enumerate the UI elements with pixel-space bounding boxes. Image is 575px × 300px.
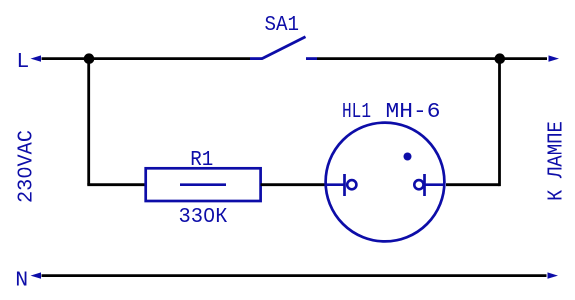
zero-dot mask for 230VAC [21,169,27,175]
lamp right electrode tip circle [414,180,423,189]
lamp right electrode bar [423,174,426,196]
wire right vertical rise [498,59,501,187]
lamp left electrode tip circle [347,180,356,189]
resistor R1 power-rating dash [180,183,226,186]
switch SA1 right contact stub [306,57,317,60]
junction left on L line [84,53,95,64]
wire resistor to lamp [261,183,327,186]
arrow left on N line [31,272,42,278]
zero-dot mask for 330K [207,213,212,218]
switch SA1 blade [262,37,306,59]
wire L line right segment [317,57,547,60]
resistor R1 body [146,168,261,201]
arrow right on N line [548,272,559,278]
svg-text:HL1: HL1 [342,100,371,124]
lamp gas indicator dot [404,153,412,161]
neon lamp HL1 envelope [326,123,445,242]
svg-text:N: N [15,269,28,293]
svg-text:МН-6: МН-6 [386,100,441,124]
wire L line left segment [42,57,251,60]
wire N line [42,274,547,277]
arrow right on L line [549,55,560,61]
svg-text:230VAC: 230VAC [14,130,38,203]
svg-text:330К: 330К [179,205,228,229]
junction right on L line [495,53,506,64]
svg-text:L: L [16,50,29,74]
wire junction to resistor [87,183,146,186]
wire lamp to right vertical [446,183,500,186]
lamp left electrode bar [343,174,346,196]
arrow left on L line [31,55,42,61]
svg-text:SA1: SA1 [265,13,300,37]
svg-text:К ЛАМПЕ: К ЛАМПЕ [545,121,569,201]
lamp left electrode lead [326,183,345,186]
switch SA1 left contact stub [250,57,263,60]
wire left vertical drop [87,59,90,185]
lamp right electrode lead [425,183,445,186]
svg-text:R1: R1 [190,148,213,172]
